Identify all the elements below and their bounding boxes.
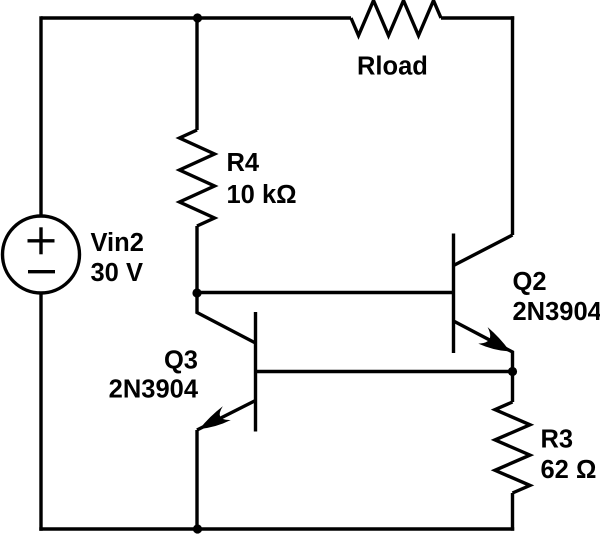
wire top-left horizontal (41, 16, 351, 19)
wire Q3 base (256, 370, 513, 373)
svg-text:62 Ω: 62 Ω (541, 456, 597, 484)
node junction (Q2 emitter / Q3 base / R3) (508, 367, 517, 376)
svg-text:2N3904: 2N3904 (513, 298, 600, 326)
wire Q3 emitter lead (195, 430, 198, 529)
transistor Q3 (197, 291, 256, 432)
wire Q2 base (197, 291, 454, 294)
svg-text:Vin2: Vin2 (91, 229, 144, 257)
svg-text:R3: R3 (541, 426, 574, 454)
svg-text:2N3904: 2N3904 (109, 376, 199, 404)
wire top-right horizontal (441, 16, 514, 19)
node junction bottom (193, 524, 202, 533)
resistor Rload (351, 1, 441, 36)
node junction top (R4 tap) (193, 13, 202, 22)
wire bottom horizontal (39, 527, 514, 530)
wire R3 top lead (511, 372, 514, 403)
svg-text:10 kΩ: 10 kΩ (227, 181, 297, 209)
svg-text:Q3: Q3 (164, 347, 198, 375)
svg-text:Rload: Rload (357, 53, 428, 81)
wire R3 bottom lead (511, 493, 514, 531)
svg-text:30 V: 30 V (91, 259, 143, 287)
svg-text:R4: R4 (227, 149, 260, 177)
wire left vertical upper (39, 16, 42, 216)
wire right vertical (to Q2 collector) (511, 16, 514, 235)
node junction (R4 / Q2 base / Q3 collector) (192, 288, 201, 297)
wire left vertical lower (39, 293, 42, 531)
resistor R4 (180, 130, 215, 226)
wire R4 top lead (195, 18, 198, 130)
voltage source Vin2 (3, 216, 80, 293)
resistor R3 (495, 402, 530, 493)
transistor Q2 (454, 234, 513, 374)
wire R4 bottom lead (195, 226, 198, 293)
svg-text:Q2: Q2 (513, 268, 547, 296)
